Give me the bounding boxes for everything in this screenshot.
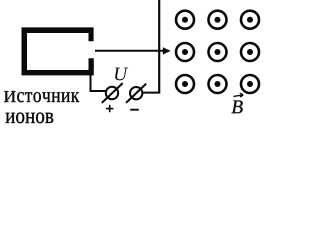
wire from right terminal to boundary line [143, 92, 159, 94]
field dot row1 col1 [176, 11, 194, 29]
terminal clamp right [126, 84, 146, 103]
field dot row2 col1 [176, 43, 194, 61]
label Источник [4, 91, 79, 102]
field region boundary line [158, 0, 160, 94]
voltage label U [115, 68, 128, 81]
field dot row3 col3 [241, 75, 259, 93]
terminal clamp left [102, 83, 123, 103]
label B vector [231, 93, 243, 113]
field dot row1 col2 [209, 11, 227, 29]
field dot row1 col3 [241, 11, 259, 29]
plus polarity mark [106, 105, 113, 112]
field dot row2 col2 [209, 43, 227, 61]
field dot row2 col3 [241, 43, 259, 61]
field dot row3 col1 [176, 75, 194, 93]
label ионов [6, 113, 54, 124]
field dot row3 col2 [209, 75, 227, 93]
wire from chamber to left terminal [91, 75, 106, 92]
minus polarity mark [130, 109, 139, 111]
ion source chamber bracket [22, 27, 94, 75]
ion beam arrow [95, 47, 171, 54]
